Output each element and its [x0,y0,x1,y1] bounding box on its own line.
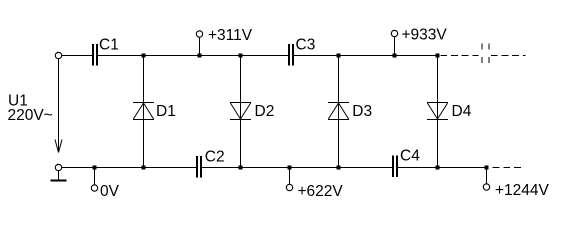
junction: D4 bottom [436,166,440,170]
node: +622V terminal [286,168,343,201]
svg-text:+1244V: +1244V [495,182,550,199]
wire: D1 branch [143,56,145,168]
svg-text:220V~: 220V~ [8,107,53,124]
source U1 220V~ [8,59,63,153]
junction: D4 top [436,54,440,58]
wire: D4 branch [437,56,439,168]
svg-text:C4: C4 [400,148,420,165]
ground [51,171,67,181]
junction: D3 top [337,54,341,58]
svg-text:D2: D2 [255,103,275,120]
wire: D2 branch [240,56,242,168]
wire: top rail dashed continuation [441,55,479,57]
capacitor (phantom, dashed) top right [482,44,489,65]
svg-text:+933V: +933V [402,27,448,44]
junction: +622V on bottom rail [288,166,292,170]
svg-text:D1: D1 [156,103,176,120]
wire: input terminal to C1 [62,55,92,57]
capacitor C2 [197,149,225,178]
terminal: AC input bottom [55,164,61,170]
wire: bottom rail C4 to +1244V [398,167,487,169]
diode D4 [427,103,472,121]
junction: +1244V on bottom rail [485,166,489,170]
node: 0V terminal [91,168,119,201]
wire: top rail C3 to D4 branch [294,55,439,57]
node: +1244V terminal [483,168,549,200]
junction: D3 bottom [337,166,341,170]
svg-text:C3: C3 [296,37,316,54]
junction: D2 bottom [239,166,243,170]
svg-text:C2: C2 [205,149,225,166]
junction: 0V on bottom rail [93,166,97,170]
svg-text:+311V: +311V [208,27,253,44]
svg-text:C1: C1 [99,37,119,54]
wire: bottom rail dashed continuation [493,167,522,169]
capacitor C4 [393,148,420,178]
wire: bottom rail C2 to C4 [202,167,392,169]
capacitor C3 [289,37,315,66]
wire: top rail C1 to C3 [98,55,288,57]
junction: D2 top [239,54,243,58]
junction: +933V on top rail [393,54,397,58]
svg-text:+622V: +622V [298,183,344,200]
svg-text:0V: 0V [100,183,120,200]
wire: D3 branch [338,56,340,168]
terminal: AC input top [55,52,61,58]
junction: D1 bottom [142,166,146,170]
wire: top rail dashed after phantom capacitor [491,55,526,57]
node: +933V terminal [391,27,447,56]
node: +311V terminal [196,27,252,56]
capacitor C1 [93,37,119,66]
diode D1 [133,103,176,121]
diode D3 [328,103,372,121]
diode D2 [230,103,274,121]
svg-text:D3: D3 [352,103,372,120]
svg-text:D4: D4 [452,103,472,120]
junction: D1 top [142,54,146,58]
junction: +311V on top rail [198,54,202,58]
wire: bottom rail left to C2 [62,167,196,169]
